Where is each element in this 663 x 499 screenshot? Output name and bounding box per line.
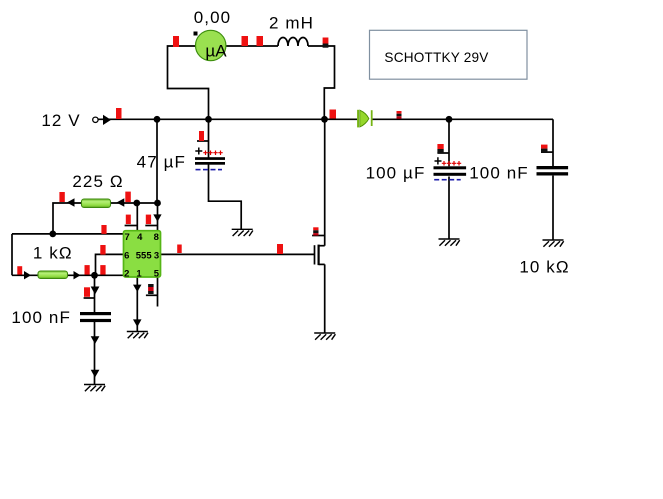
svg-text:0,00: 0,00 [194, 8, 232, 27]
svg-text:µA: µA [205, 42, 227, 61]
current marker striped right of diode [397, 111, 402, 119]
svg-text:2: 2 [124, 268, 129, 279]
wire 225ohm rail [53, 203, 158, 234]
battery 12V terminal [93, 117, 98, 122]
wire source to ground [324, 264, 326, 333]
svg-text:SCHOTTKY 29V: SCHOTTKY 29V [384, 50, 488, 65]
tick pin5 marker [146, 294, 158, 296]
wire 47uF top lead [208, 119, 210, 157]
node junction 100uF [446, 116, 453, 123]
svg-text:8: 8 [154, 232, 159, 243]
transistor Q1 MOSFET [315, 245, 325, 266]
node junction diode-drain [321, 116, 328, 123]
current marker red at pin4 [126, 215, 131, 225]
probe dot ammeter [194, 32, 198, 36]
current marker red at 47uF [199, 131, 204, 141]
resistor R2 1kohm [38, 271, 68, 279]
node junction left-pin7 [49, 231, 56, 238]
current marker red right of pin3 [177, 245, 182, 254]
wire ammeter right to inductor [226, 45, 279, 47]
IC U2 555 timer [124, 231, 161, 280]
node junction 1k-pin2 [91, 272, 98, 279]
ground below 10k cap [543, 240, 564, 247]
wire 100uF top lead [448, 119, 450, 166]
tick 10k cap marker [541, 151, 553, 153]
wire pin4 vertical [136, 203, 138, 231]
tick 47uF marker [197, 140, 209, 142]
svg-text:5: 5 [154, 268, 160, 279]
current marker red-black at 10k cap [541, 145, 548, 153]
svg-text:2 mH: 2 mH [269, 14, 314, 33]
current marker red left of 225 resistor [59, 192, 64, 202]
svg-text:4: 4 [137, 232, 143, 243]
current marker red at pin7 wire [101, 225, 106, 234]
current marker red at pin8 [146, 215, 151, 225]
wire pin6 loop [96, 254, 124, 275]
svg-text:100 nF: 100 nF [469, 164, 529, 183]
ground below 100uF [439, 239, 460, 246]
ammeter U1 [196, 30, 226, 60]
svg-text:7: 7 [125, 232, 130, 243]
tick 100nF marker [84, 297, 95, 299]
current marker red on gate wire [277, 244, 283, 254]
capacitor C1 47uF electrolytic [195, 148, 225, 171]
node junction 225ohm-pin4 [133, 200, 140, 207]
inductor L1 2mH [278, 38, 308, 47]
svg-text:100 µF: 100 µF [366, 164, 426, 183]
node junction 12V-225ohm [154, 116, 161, 123]
ground below 555 pin1 [127, 332, 148, 339]
node junction 12V-47uF [205, 116, 212, 123]
arrow down to 100nF [91, 287, 100, 295]
wire pin2 horizontal through 1k resistor [12, 274, 124, 276]
arrow down below 100nF [91, 336, 100, 344]
current marker red right of meter 2 [257, 36, 264, 46]
current marker red at 100nF top [84, 287, 90, 297]
wire 10k cap top lead [552, 119, 554, 166]
wire pin8 vertical [157, 203, 159, 231]
wire pin3 to gate [161, 253, 315, 255]
current marker red at 12V terminal [116, 108, 122, 119]
arrow down above 100nF ground [91, 370, 100, 378]
current marker red on 225 rail [125, 192, 131, 203]
current marker red at pin6 wire [100, 245, 105, 255]
current marker red on meter left wire [173, 36, 179, 47]
arrow down above pin1 ground [133, 319, 142, 327]
wire 47uF bottom to ground [209, 165, 242, 230]
current marker red left of diode [330, 110, 337, 119]
capacitor C3 100nF right [537, 166, 569, 176]
arrow current right at 12V [103, 115, 111, 125]
current marker striped at drain [313, 227, 318, 235]
svg-text:6: 6 [124, 250, 129, 261]
wire inductor right down to diode rail [308, 46, 335, 119]
wire junction down to 100nF [94, 275, 96, 312]
wire pin1 to ground [136, 277, 138, 332]
wire top-left loop from ammeter to 12V rail [168, 46, 209, 119]
svg-text:100 nF: 100 nF [11, 308, 71, 327]
wire pin5 stub [157, 277, 159, 307]
current marker red-black at inductor right [323, 38, 329, 48]
svg-text:47 µF: 47 µF [137, 153, 186, 172]
wire 12V junction down to 225ohm rail [156, 119, 158, 203]
tick pin8 marker [145, 225, 157, 227]
annotation box SCHOTTKY 29V [370, 30, 528, 79]
svg-text:555: 555 [136, 250, 153, 261]
capacitor C2 100uF electrolytic [434, 157, 467, 180]
node junction 225ohm-pin8 [154, 200, 161, 207]
capacitor C4 100nF bottom [80, 312, 111, 322]
diode D1 schottky [357, 110, 372, 128]
current marker striped at pin5 [148, 284, 154, 294]
wire 12V rail [98, 118, 357, 120]
arrow left of 225 resistor [67, 198, 75, 207]
current marker red right of 1k [85, 265, 90, 275]
svg-text:3: 3 [154, 250, 159, 261]
arrow right of 1k resistor [74, 271, 81, 279]
ground below 47uF [232, 229, 253, 236]
wire 100uF bottom to ground [448, 177, 450, 240]
wire 100nF bottom to ground [94, 322, 96, 385]
svg-text:1: 1 [136, 268, 142, 279]
wire diode cathode to 10k branch corner [372, 118, 553, 120]
tick 100uF marker [437, 152, 449, 154]
ground below MOSFET source [314, 333, 335, 340]
svg-text:10 kΩ: 10 kΩ [519, 258, 569, 277]
wire drain vertical [324, 119, 326, 245]
wire 10k cap bottom to ground [552, 176, 554, 240]
current marker red at pin2 wire [100, 265, 105, 275]
ground below 100nF [84, 385, 105, 392]
arrow down on pin1 wire [133, 285, 142, 292]
wire pin7 horizontal [12, 233, 124, 235]
resistor R1 225ohm [82, 199, 111, 208]
svg-text:1 kΩ: 1 kΩ [33, 244, 73, 263]
svg-text:12 V: 12 V [41, 111, 80, 130]
arrow right of 225 resistor [117, 198, 125, 207]
current marker red far left [17, 266, 22, 274]
arrow left of 1k resistor [24, 271, 31, 279]
tick pin4 marker [125, 225, 138, 227]
arrow down on pin8 wire [153, 214, 161, 221]
wire left vertical [11, 234, 13, 275]
tick drain marker [312, 235, 325, 237]
current marker red-black at 100uF [437, 144, 443, 153]
svg-text:225 Ω: 225 Ω [72, 172, 123, 191]
current marker red right of meter 1 [242, 36, 249, 46]
